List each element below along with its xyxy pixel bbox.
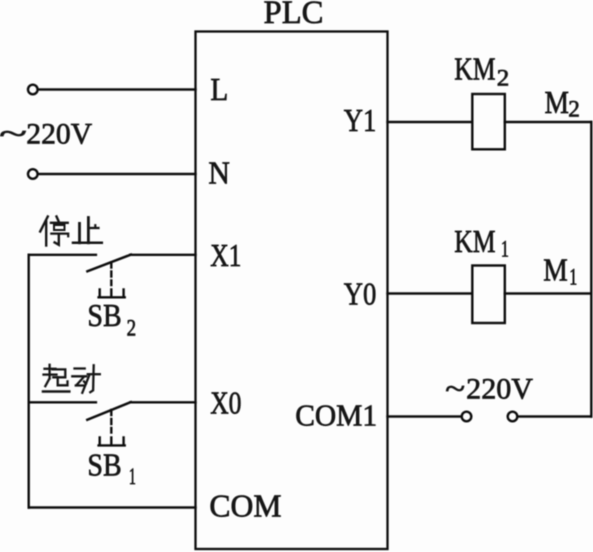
svg-text:COM: COM [209,488,281,524]
contactor coil KM1 [472,266,505,324]
svg-text:M: M [545,84,570,120]
label ting (stop char 1) [40,217,68,246]
svg-text:2: 2 [497,66,510,91]
wire KM2 to M2 bus [505,121,592,123]
right bus wire vertical [590,122,592,417]
switch SB1 blade [87,402,131,420]
wire N [38,173,196,175]
switch SB1 actuator dashed link [110,410,112,433]
wire X1 left segment [29,254,96,256]
contactor coil KM2 [472,94,505,149]
svg-text:M: M [543,252,568,288]
switch SB2 actuator dashed link [110,263,112,286]
label zhi (stop char 2) [73,218,102,243]
supply terminal circle right [508,412,518,422]
terminal circle L [28,85,38,95]
wire X0 left segment [29,401,96,403]
wire COM1 to supply terminal [388,415,462,417]
wire COM [29,506,196,508]
svg-text:~: ~ [0,118,27,151]
left bus wire vertical [28,255,30,508]
svg-text:1: 1 [569,265,577,290]
label dong (start char 2) [72,365,100,393]
svg-text:KM: KM [454,223,495,259]
svg-text:Y0: Y0 [344,276,377,312]
wire X1 right segment [130,254,195,256]
wire Y0 [388,292,473,294]
svg-text:SB: SB [87,297,121,333]
svg-text:SB: SB [87,447,121,483]
svg-text:N: N [208,154,230,190]
PLC box [196,32,388,550]
svg-text:X0: X0 [210,384,241,420]
terminal circle N [28,169,38,179]
svg-text:KM: KM [454,51,495,87]
supply terminal circle left [462,412,472,422]
switch SB1 actuator cap [99,438,125,446]
wire L [38,88,196,90]
wire KM1 to M1 bus [505,292,592,294]
wire Y1 [388,121,473,123]
switch SB2 blade [87,255,130,272]
svg-text:220V: 220V [26,118,92,151]
svg-text:X1: X1 [210,237,241,273]
wire supply to right bus [518,415,592,417]
svg-text:2: 2 [127,316,137,341]
svg-text:L: L [210,71,228,107]
svg-text:1: 1 [129,464,136,489]
svg-text:~: ~ [445,373,465,406]
svg-text:2: 2 [568,97,580,122]
svg-text:COM1: COM1 [295,397,377,432]
wire X0 right segment [130,401,195,403]
switch SB2 actuator cap [99,290,125,298]
svg-text:PLC: PLC [264,0,324,31]
svg-text:1: 1 [501,237,509,262]
svg-text:Y1: Y1 [344,102,377,138]
label qi (start char 1) [43,365,69,392]
svg-text:220V: 220V [466,373,533,406]
